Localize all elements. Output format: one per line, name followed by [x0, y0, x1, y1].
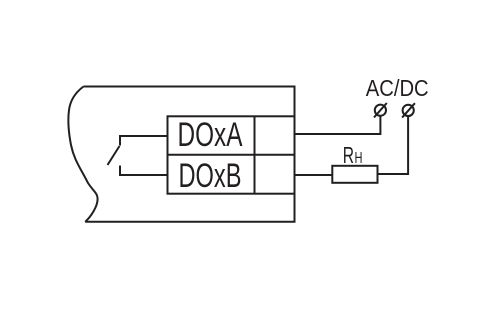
terminal block row divider	[168, 154, 295, 156]
switch S: moving contact stub and wire to DOxB	[120, 166, 168, 176]
svg-text:AC/DC: AC/DC	[366, 75, 429, 101]
wire: DOxA terminal to AC/DC left screw	[295, 116, 381, 134]
switch S: wire from DOxA to fixed contact stub	[120, 136, 168, 146]
switch S: blade (open)	[108, 146, 120, 165]
terminal block column divider	[254, 116, 256, 193]
load resistor body	[332, 166, 377, 183]
wire: load resistor to AC/DC right screw	[378, 116, 409, 174]
label Rн	[343, 142, 363, 168]
svg-text:DOxB: DOxB	[179, 157, 242, 195]
svg-text:DOxA: DOxA	[178, 116, 243, 154]
device body break-line (wavy left edge)	[68, 87, 97, 222]
svg-text:R: R	[343, 142, 354, 168]
device body outline (top, right, bottom edges)	[84, 87, 295, 222]
svg-text:H: H	[355, 150, 363, 167]
AC/DC left screw slash	[374, 103, 387, 117]
AC/DC left screw terminal circle	[375, 105, 386, 116]
AC/DC right screw terminal circle	[403, 105, 414, 116]
terminal block outer box	[168, 116, 295, 193]
AC/DC right screw slash	[402, 103, 415, 117]
wire: DOxB terminal to load resistor	[295, 174, 333, 176]
